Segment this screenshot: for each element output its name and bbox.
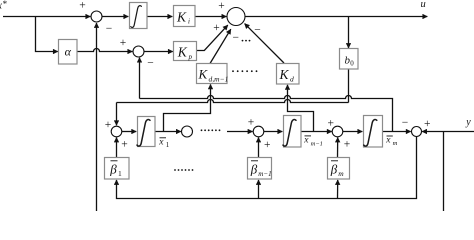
main summing junction S3 (227, 8, 245, 26)
svg-text:β: β (250, 162, 258, 177)
wire Ki to main summing junction S3 (195, 16, 226, 18)
label integral I3 (283, 120, 296, 147)
svg-text:+: + (105, 119, 112, 131)
gain b0 (340, 49, 359, 70)
summing junction C1 (111, 126, 122, 137)
wire b0 output down to lower bus (348, 69, 350, 103)
node C2 (182, 126, 193, 137)
wire branch u down into b0 (348, 17, 350, 49)
gain Kp (174, 42, 197, 61)
svg-text:α: α (65, 45, 72, 59)
wire C3 to integrator I3 (264, 131, 283, 133)
svg-text:m: m (393, 140, 398, 147)
wire I1 to gain Ki (147, 16, 172, 18)
svg-text:−: − (254, 25, 261, 37)
wire lower bus drop into observer junction C1 (116, 103, 118, 126)
label x1 state (160, 137, 167, 139)
svg-text:+: + (344, 138, 351, 150)
integrator block I1 (130, 3, 148, 29)
dots between Kd,m-1 and Kd (232, 70, 257, 72)
wire input y from right edge into C5 (422, 131, 474, 133)
wire C4 to integrator I4 (343, 131, 362, 133)
label xm state (387, 135, 393, 137)
svg-text:+: + (121, 138, 128, 150)
label integral I1 (131, 6, 142, 28)
svg-text:+: + (79, 0, 86, 11)
wire tap xm-1 up to gain Kd (288, 85, 314, 132)
label integral I4 (364, 120, 377, 147)
label integral I2 (137, 120, 150, 147)
dots under S3 (242, 40, 251, 42)
wire Kp to S3 diagonal (197, 25, 228, 50)
wire xm feedback vertical up into S2 minus (139, 58, 141, 99)
wire output u from S3 (245, 16, 427, 18)
summing junction C4 (332, 126, 343, 137)
label beta m-1 (251, 160, 258, 162)
svg-text:u: u (421, 0, 426, 10)
svg-text:0: 0 (350, 60, 354, 68)
svg-text:+: + (327, 117, 334, 129)
gain Kd (277, 64, 300, 85)
svg-text:1: 1 (118, 169, 122, 178)
summing junction S2 (133, 46, 144, 57)
svg-text:*: * (3, 0, 8, 9)
wire I2 output to node C2 (155, 131, 181, 133)
svg-text:y: y (465, 117, 471, 128)
svg-text:+: + (213, 22, 220, 34)
integrator block I3 (284, 116, 302, 148)
wire error bus branch up into beta m-1 (258, 180, 260, 199)
wire tap x1 up to gain Kd,m-1 (164, 84, 211, 131)
dots between beta1 and beta m-1 (174, 169, 193, 171)
gain alpha (59, 40, 78, 65)
svg-text:+: + (424, 118, 431, 130)
svg-text:x: x (303, 136, 309, 146)
wire I4 output xm to summing junction C5 (383, 131, 411, 133)
dots after C2 (201, 129, 221, 131)
wire C1 to integrator I2 (122, 131, 136, 133)
svg-text:x: x (158, 138, 164, 148)
wire error bus branch up into beta m (337, 180, 339, 199)
svg-text:−: − (233, 32, 240, 44)
integrator block I2 (138, 117, 156, 147)
label beta1 (111, 160, 118, 162)
wire Kd,m-1 to S3 diagonal (210, 29, 231, 63)
wire feedback into S1 minus from below (cut at bottom edge) (96, 23, 98, 211)
svg-text:K: K (176, 10, 187, 25)
svg-text:−: − (147, 58, 154, 70)
svg-text:m−1: m−1 (311, 141, 323, 148)
wire beta m-1 output up into C3 plus (258, 138, 260, 158)
wire S2 to gain Kp (144, 51, 173, 53)
summing junction C5 (412, 127, 422, 137)
wire into summing junction C3 (227, 131, 253, 133)
gain Kd,m-1 (197, 64, 228, 84)
wire upper feedback bus from xm tap (hops over three verticals) (140, 96, 393, 132)
wire input x* to summing junction S1 (3, 16, 90, 18)
label xm-1 state (305, 135, 312, 137)
svg-text:1: 1 (166, 141, 170, 149)
svg-text:−: − (106, 23, 113, 35)
svg-text:−: − (402, 117, 409, 129)
svg-text:x: x (385, 135, 391, 145)
svg-text:β: β (109, 162, 117, 177)
summing junction S1 (91, 11, 102, 22)
svg-text:+: + (264, 139, 271, 151)
wire beta1 output up into C1 plus (116, 138, 118, 158)
observer gain beta m (328, 158, 350, 180)
svg-text:d,m−1: d,m−1 (209, 75, 229, 84)
summing junction C3 (253, 126, 264, 137)
wire error bus from C5 down and left to beta1 (117, 137, 417, 199)
svg-text:+: + (218, 0, 225, 12)
svg-text:K: K (198, 67, 209, 82)
wire lower bus b0u (hops over two verticals) (117, 100, 349, 103)
wire I3 output to summing junction C4 (301, 131, 332, 133)
observer gain beta1 (105, 158, 130, 180)
svg-text:m: m (338, 169, 344, 178)
gain Ki (174, 6, 196, 27)
svg-text:i: i (188, 18, 190, 26)
wire S1 to integrator block I1 (102, 16, 128, 18)
wire Kd to S3 diagonal (245, 24, 284, 63)
svg-text:d: d (290, 75, 294, 84)
svg-text:K: K (177, 45, 188, 60)
svg-text:K: K (279, 67, 290, 82)
wire branch down to alpha block (36, 17, 58, 52)
svg-text:p: p (188, 53, 193, 61)
wire alpha to summing junction S2 (hop over feedback line) (77, 49, 132, 52)
svg-text:β: β (330, 162, 338, 177)
svg-text:m−1: m−1 (258, 170, 271, 178)
wire branch y down (cut at bottom edge) (443, 132, 445, 212)
observer gain beta m-1 (248, 158, 272, 180)
label beta m (331, 160, 338, 162)
svg-text:+: + (248, 117, 255, 129)
integrator block I4 (364, 116, 383, 148)
wire beta m output up into C4 plus (337, 138, 339, 158)
svg-text:+: + (120, 37, 127, 49)
